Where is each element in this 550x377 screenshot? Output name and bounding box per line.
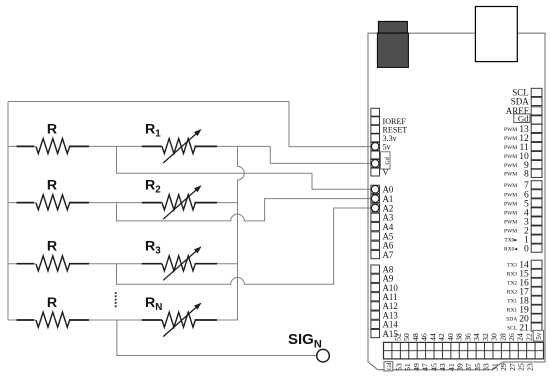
svg-text:0: 0 (524, 244, 529, 255)
pin AREF (531, 107, 542, 115)
variable resistor R3 (row 3) (142, 239, 217, 281)
wire row 4 horizontal (8, 319, 238, 321)
variable resistor R2 (row 2) (142, 178, 217, 220)
pin 14 (TX3) (531, 260, 542, 268)
wire row 1 horizontal (8, 145, 270, 147)
svg-text:47: 47 (421, 363, 430, 371)
pin 18 (TX1) (531, 296, 542, 304)
pin 5 (531, 199, 542, 207)
pin A5 (371, 232, 380, 240)
pin A3 (371, 213, 380, 221)
svg-text:33: 33 (482, 363, 491, 371)
power jack (475, 7, 517, 62)
pin 9 (531, 161, 542, 169)
svg-text:34: 34 (472, 333, 481, 341)
pin 1 (531, 235, 542, 243)
pin 12 (531, 133, 542, 141)
svg-text:PWM: PWM (504, 228, 517, 234)
svg-text:52: 52 (394, 333, 403, 341)
wire left 5V bus (7, 102, 9, 321)
pin 13 (531, 124, 542, 132)
pin 3.3v (left power header) (371, 134, 380, 142)
svg-text:8: 8 (524, 169, 529, 180)
resistor R (fixed, row 1) (17, 121, 90, 153)
node N4 wire to SIG_N terminal (117, 320, 317, 356)
svg-text:Gd: Gd (385, 157, 391, 164)
pin A8 (371, 265, 380, 273)
pin blank6 (left power header) (371, 160, 380, 168)
svg-text:TX3: TX3 (507, 263, 517, 269)
pin V (left power header) (371, 168, 380, 176)
svg-text:PWM: PWM (504, 172, 517, 178)
pin 11 (531, 143, 542, 151)
svg-text:50: 50 (402, 333, 411, 341)
Gd rotated label box (left) (381, 152, 391, 169)
svg-text:V: V (383, 168, 389, 177)
svg-text:28: 28 (498, 333, 507, 341)
node N2 wire to A1 (hops over GND bus) (117, 199, 372, 221)
resistor R (fixed, row 2) (17, 178, 90, 210)
bottom header top pin numbers 52..22 (394, 333, 534, 341)
Arduino Mega board outline (368, 33, 545, 370)
wire top 5V feed to board (8, 102, 372, 147)
svg-text:Gd: Gd (518, 113, 529, 123)
pin 6 (531, 190, 542, 198)
svg-text:51: 51 (403, 363, 412, 371)
bottom header Gd box (384, 362, 393, 371)
svg-text:45: 45 (429, 363, 438, 371)
svg-text:RX1: RX1 (507, 308, 518, 314)
pin 16 (TX2) (531, 278, 542, 286)
pin 5v (left power header) (371, 142, 380, 150)
pin Gnd circle terminal (371, 160, 379, 168)
svg-text:5v: 5v (383, 143, 392, 152)
svg-text:Gd: Gd (387, 363, 393, 370)
svg-text:PWM: PWM (504, 154, 517, 160)
pin 19 (RX1) (531, 305, 542, 313)
pin 3 (531, 217, 542, 225)
pin A11 (371, 293, 380, 301)
svg-text:TX0▸: TX0▸ (504, 238, 517, 244)
svg-text:SDA: SDA (511, 97, 530, 107)
pin 17 (RX2) (531, 287, 542, 295)
pin SDA (531, 97, 542, 105)
svg-text:R: R (47, 239, 57, 255)
svg-text:42: 42 (437, 333, 446, 341)
svg-text:21: 21 (519, 323, 529, 334)
pin RESET (left power header) (371, 125, 380, 133)
svg-text:PWM: PWM (504, 136, 517, 142)
pin blank0 (left power header) (371, 108, 380, 116)
svg-text:PWM: PWM (504, 127, 517, 133)
pin 8 (531, 169, 542, 177)
wire R1 right terminal to GND pin (270, 146, 372, 163)
pin blank5 (left power header) (371, 151, 380, 159)
USB connector (377, 21, 408, 67)
svg-text:25: 25 (517, 363, 526, 371)
svg-text:R: R (47, 295, 57, 311)
ellipsis dots (more rows) (115, 292, 117, 307)
svg-text:44: 44 (428, 333, 437, 341)
svg-text:PWM: PWM (504, 192, 517, 198)
svg-text:39: 39 (456, 363, 465, 371)
svg-text:RX2: RX2 (507, 290, 518, 296)
svg-text:29: 29 (499, 363, 508, 371)
pin 0 (531, 244, 542, 252)
pin 2 (531, 226, 542, 234)
svg-text:35: 35 (473, 363, 482, 371)
pin A2 circle terminal (371, 204, 379, 212)
pin A12 (371, 302, 380, 310)
svg-text:26: 26 (507, 333, 516, 341)
svg-text:R: R (47, 121, 57, 137)
pin SCL (531, 88, 542, 96)
svg-text:PWM: PWM (504, 210, 517, 216)
pin 20 (SDA) (531, 314, 542, 322)
pin IOREF (left power header) (371, 117, 380, 125)
svg-text:48: 48 (411, 333, 420, 341)
svg-text:5v: 5v (536, 332, 543, 339)
svg-text:37: 37 (464, 363, 473, 371)
svg-text:31: 31 (490, 363, 499, 371)
svg-text:RX3: RX3 (507, 272, 518, 278)
pin Gd (right) (531, 116, 542, 124)
pin A1 circle terminal (371, 195, 379, 203)
pin A15 (371, 329, 380, 337)
SIG_N open terminal circle (317, 349, 330, 362)
svg-text:PWM: PWM (504, 201, 517, 207)
svg-text:SCL: SCL (507, 326, 518, 332)
pin 5v circle terminal (371, 143, 379, 151)
svg-text:PWM: PWM (504, 145, 517, 151)
svg-text:40: 40 (446, 333, 455, 341)
wire common GND bus vertical (hops over node-A0 wire) (238, 146, 245, 320)
svg-text:32: 32 (481, 333, 490, 341)
svg-text:30: 30 (490, 333, 499, 341)
pin A7 (371, 251, 380, 259)
pin A4 (371, 223, 380, 231)
pin A9 (371, 274, 380, 282)
pin 10 (531, 152, 542, 160)
svg-text:43: 43 (438, 363, 447, 371)
bottom header bottom pin numbers 53..23 (394, 363, 534, 371)
resistor R (fixed, row 4) (17, 295, 90, 327)
node N1 wire to A0 (117, 146, 372, 189)
pin A10 (371, 283, 380, 291)
pin 7 (531, 181, 542, 189)
svg-text:23: 23 (525, 363, 534, 371)
svg-text:RX0◂: RX0◂ (504, 247, 517, 253)
pin A14 (371, 320, 380, 328)
svg-text:R: R (47, 178, 57, 194)
svg-text:49: 49 (412, 363, 421, 371)
pin 4 (531, 208, 542, 216)
resistor R (fixed, row 3) (17, 239, 90, 271)
pin A1 (371, 195, 380, 203)
svg-text:TX2: TX2 (507, 281, 517, 287)
svg-text:PWM: PWM (504, 163, 517, 169)
svg-text:A7: A7 (383, 250, 394, 260)
svg-text:53: 53 (394, 363, 403, 371)
svg-text:41: 41 (447, 363, 456, 371)
variable resistor R1 (row 1) (142, 121, 217, 163)
bottom header 5v box (533, 330, 543, 341)
variable resistor RN (row 4) (142, 295, 217, 337)
svg-text:PWM: PWM (504, 183, 517, 189)
pin A2 (371, 204, 380, 212)
pin 15 (RX3) (531, 269, 542, 277)
pin 21 (SCL) (531, 323, 542, 331)
pin A0 circle terminal (371, 186, 379, 194)
svg-text:SDA: SDA (506, 317, 517, 323)
svg-text:22: 22 (524, 333, 533, 341)
svg-text:27: 27 (508, 363, 517, 371)
wire row 2 horizontal (8, 202, 238, 204)
bottom double pin header (384, 342, 544, 359)
pin A0 (371, 185, 380, 193)
svg-text:TX1: TX1 (507, 299, 517, 305)
svg-text:24: 24 (516, 333, 525, 341)
svg-text:PWM: PWM (504, 219, 517, 225)
svg-text:38: 38 (455, 333, 464, 341)
node N3 wire to A2 (hops over GND bus) (117, 208, 372, 284)
svg-text:36: 36 (463, 333, 472, 341)
svg-text:46: 46 (420, 333, 429, 341)
pin A6 (371, 241, 380, 249)
pin A13 (371, 311, 380, 319)
wire row 3 horizontal (8, 263, 238, 265)
